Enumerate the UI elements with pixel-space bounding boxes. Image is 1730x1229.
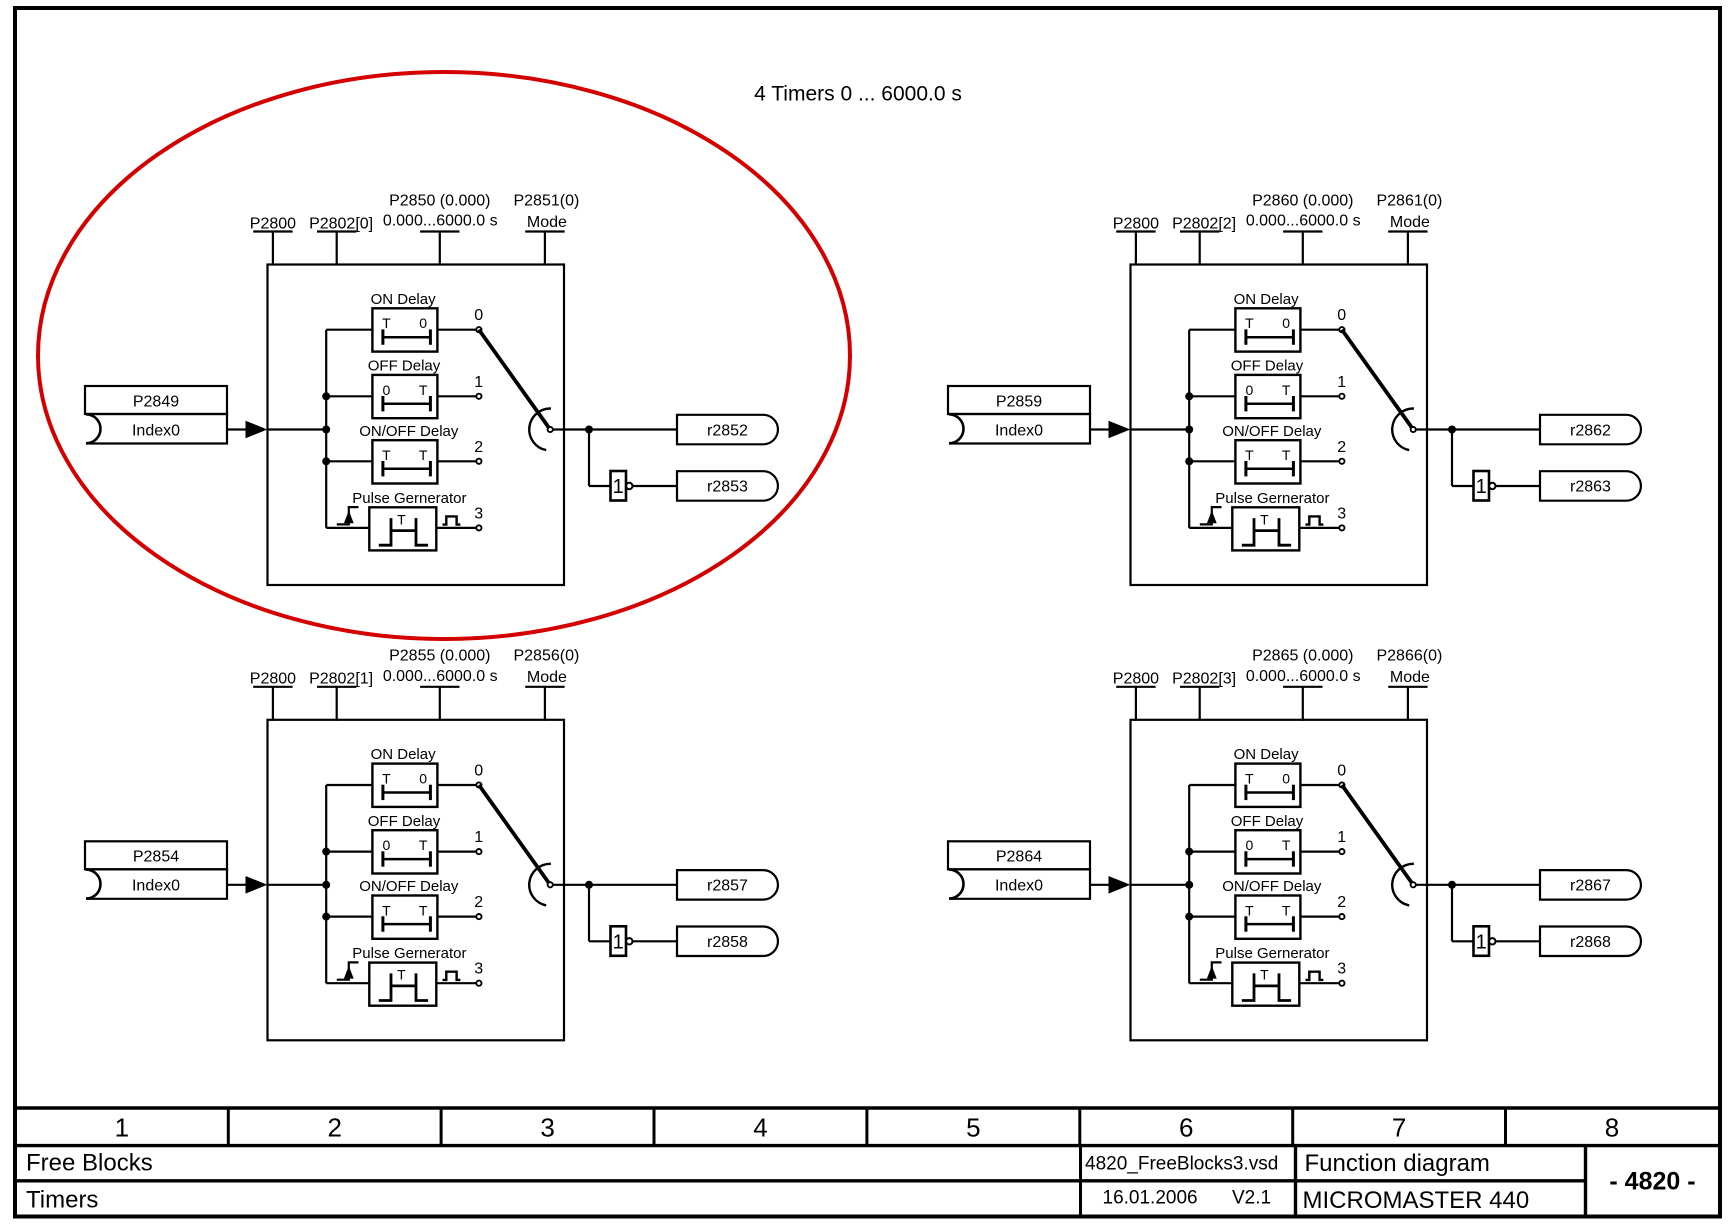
timer 3 Pulse Gernerator box <box>1232 507 1299 550</box>
timer 3 branch bus wire <box>1188 330 1190 528</box>
timer 2 output connector r2858 <box>677 927 778 957</box>
timer 4 pin P2800 <box>1116 687 1155 721</box>
svg-text:2: 2 <box>474 439 483 456</box>
svg-text:3: 3 <box>1337 505 1346 522</box>
svg-text:ON/OFF Delay: ON/OFF Delay <box>1222 878 1322 895</box>
svg-text:Mode: Mode <box>527 669 567 686</box>
timer 3 pin P2861(0) Mode <box>1388 232 1427 266</box>
timer 4 output connector r2867 <box>1540 870 1641 900</box>
timer 3 output wire <box>1416 428 1540 430</box>
timer 2 wire down to inverter <box>588 885 590 942</box>
timer 1 output junction dot <box>585 426 593 434</box>
svg-text:P2866(0): P2866(0) <box>1376 648 1442 665</box>
svg-text:ON/OFF Delay: ON/OFF Delay <box>359 423 459 440</box>
timer 3 switch contact 2 <box>1339 459 1344 464</box>
timer 1 wire into Pulse Gernerator <box>326 527 369 529</box>
svg-text:P2861(0): P2861(0) <box>1376 192 1442 209</box>
timer 3 pin P2860 (0.000) <box>1283 232 1322 266</box>
timer 1 switch contact 0 <box>476 327 481 332</box>
svg-text:ON/OFF Delay: ON/OFF Delay <box>1222 423 1322 440</box>
timer 3 block enclosure <box>1131 265 1428 586</box>
timer 4 pulse waveform <box>1242 973 1291 1000</box>
timer 3 wire into ON Delay <box>1189 329 1235 331</box>
svg-text:0.000...6000.0 s: 0.000...6000.0 s <box>1246 668 1361 685</box>
svg-text:Index0: Index0 <box>995 422 1043 439</box>
svg-text:T: T <box>419 447 428 463</box>
timer 2 wire inverter to r2858 <box>633 940 677 942</box>
timer 1 wire into ON Delay <box>326 329 372 331</box>
svg-text:MICROMASTER 440: MICROMASTER 440 <box>1303 1187 1530 1214</box>
timer 3 output connector r2863 <box>1540 471 1641 501</box>
timer 1 junction dot ON/OFF row <box>322 457 330 465</box>
timer 4 output junction dot <box>1448 881 1456 889</box>
timer 2 junction dot OFF row <box>322 848 330 856</box>
timer 2 block enclosure <box>268 720 565 1041</box>
timer 4 wire out of ON/OFF Delay <box>1300 915 1339 917</box>
timer 1 output connector r2852 <box>677 415 778 445</box>
timer 4 ON Delay timing bar <box>1246 785 1294 800</box>
svg-text:3: 3 <box>474 505 483 522</box>
svg-text:r2868: r2868 <box>1570 934 1611 951</box>
timer 3 switch contact 3 <box>1339 525 1344 530</box>
svg-text:T: T <box>1245 315 1254 331</box>
timer 4 OFF Delay symbol T labels <box>1246 837 1291 853</box>
timer 4 switch contact 1 <box>1339 849 1344 854</box>
timer 3 ON Delay box <box>1235 308 1300 351</box>
timer 3 switch contact 0 <box>1339 327 1344 332</box>
timer 1 ON Delay timing bar <box>383 329 431 344</box>
svg-text:P2865 (0.000): P2865 (0.000) <box>1252 648 1353 665</box>
timer 1 pin P2800 <box>253 232 292 266</box>
timer 4 wire out of OFF Delay <box>1300 850 1339 852</box>
svg-text:Index0: Index0 <box>132 422 180 439</box>
timer 1 selector arc <box>529 408 551 450</box>
timer 3 selector lever <box>1342 330 1413 430</box>
svg-text:V2.1: V2.1 <box>1232 1188 1271 1209</box>
timer 2 input wire <box>227 884 247 886</box>
timer 1 pin P2802[0] <box>317 232 356 266</box>
svg-text:P2802[2]: P2802[2] <box>1172 215 1236 232</box>
timer 2 output connector r2857 <box>677 870 778 900</box>
timer 2 ON/OFF Delay symbol T labels <box>382 902 428 918</box>
timer 4 junction dot main row <box>1185 881 1193 889</box>
svg-text:0: 0 <box>1246 837 1254 853</box>
column separator 5|6 <box>1078 1108 1081 1146</box>
svg-text:0: 0 <box>419 771 427 787</box>
timer 3 wire out of Pulse Gernerator <box>1299 527 1339 529</box>
timer 1 Pulse Gernerator box <box>369 507 436 550</box>
svg-text:T: T <box>1282 902 1291 918</box>
timer 4 output pulse symbol <box>1306 972 1324 980</box>
svg-text:P2802[0]: P2802[0] <box>309 215 373 232</box>
timer 2 pin P2856(0) Mode <box>525 687 564 721</box>
svg-text:P2860 (0.000): P2860 (0.000) <box>1252 192 1353 209</box>
timer 3 input arrowhead <box>1109 421 1131 439</box>
timer 3 common contact <box>1411 427 1416 432</box>
timer 1 OFF Delay timing bar <box>383 396 431 411</box>
timer 2 junction dot main row <box>322 881 330 889</box>
timer 4 OFF Delay box <box>1235 830 1300 873</box>
timer 2 ON Delay box <box>372 764 437 807</box>
svg-text:T: T <box>419 382 428 398</box>
separator left of page number cell <box>1584 1146 1587 1217</box>
svg-text:T: T <box>382 447 391 463</box>
svg-text:Pulse Gernerator: Pulse Gernerator <box>1215 945 1329 962</box>
timer 3 wire into Pulse Gernerator <box>1189 527 1232 529</box>
timer 3 selector arc <box>1392 408 1414 450</box>
column separator 2|3 <box>440 1108 443 1146</box>
timer 2 Pulse Gernerator box <box>369 963 436 1006</box>
svg-text:r2867: r2867 <box>1570 878 1611 895</box>
svg-text:r2853: r2853 <box>707 479 748 496</box>
svg-text:P2802[1]: P2802[1] <box>309 671 373 688</box>
timer 2 inverter negation circle <box>626 938 632 944</box>
column separator 3|4 <box>653 1108 656 1146</box>
separator left of Function diagram cell <box>1294 1146 1297 1217</box>
svg-text:0: 0 <box>1337 763 1346 780</box>
timer 2 switch contact 0 <box>476 782 481 787</box>
timer 2 common contact <box>548 882 553 887</box>
timer 4 ON/OFF Delay symbol T labels <box>1245 902 1291 918</box>
timer 1 output wire <box>553 428 677 430</box>
svg-text:8: 8 <box>1605 1113 1619 1143</box>
timer 4 wire out of Pulse Gernerator <box>1299 982 1339 984</box>
svg-text:T: T <box>397 967 406 983</box>
timer 4 output wire <box>1416 884 1540 886</box>
svg-text:3: 3 <box>1337 961 1346 978</box>
svg-text:T: T <box>382 771 391 787</box>
timer 3 wire into ON/OFF Delay <box>1189 460 1235 462</box>
timer 1 wire inverter to r2853 <box>633 485 677 487</box>
timer 3 pin P2800 <box>1116 232 1155 266</box>
svg-text:P2800: P2800 <box>250 671 296 688</box>
column separator 1|2 <box>227 1108 230 1146</box>
svg-text:OFF Delay: OFF Delay <box>1231 813 1304 830</box>
svg-text:P2802[3]: P2802[3] <box>1172 671 1236 688</box>
timer 1 input arrowhead <box>246 421 268 439</box>
timer 2 selector lever <box>479 785 550 885</box>
svg-text:0: 0 <box>419 315 427 331</box>
svg-text:P2800: P2800 <box>1113 215 1159 232</box>
svg-text:r2863: r2863 <box>1570 479 1611 496</box>
title block rule under column numbers <box>15 1144 1720 1147</box>
timer 1 inverter box <box>611 471 627 501</box>
timer 4 input wire <box>1090 884 1110 886</box>
title block rule between rows <box>15 1179 1586 1182</box>
separator left of file name cell <box>1079 1146 1082 1217</box>
timer 1 OFF Delay box <box>372 375 437 418</box>
timer 2 switch contact 3 <box>476 981 481 986</box>
timer 1 output pulse symbol <box>443 516 461 524</box>
timer 1 wire out of OFF Delay <box>437 395 476 397</box>
svg-text:1: 1 <box>474 374 483 391</box>
timer 1 input wire <box>227 428 247 430</box>
timer 3 wire inverter to r2863 <box>1496 485 1540 487</box>
timer 2 switch contact 2 <box>476 914 481 919</box>
timer 1 wire into inverter <box>589 485 611 487</box>
timer 2 ON/OFF Delay box <box>372 896 437 939</box>
timer 2 ON/OFF Delay timing bar <box>383 916 431 931</box>
timer 1 switch contact 3 <box>476 525 481 530</box>
svg-text:16.01.2006: 16.01.2006 <box>1103 1188 1198 1209</box>
svg-text:Mode: Mode <box>1390 669 1430 686</box>
timer 2 output pulse symbol <box>443 972 461 980</box>
svg-text:0.000...6000.0 s: 0.000...6000.0 s <box>383 213 498 230</box>
timer 2 wire out of ON/OFF Delay <box>437 915 476 917</box>
timer 1 branch bus wire <box>325 330 327 528</box>
timer 2 junction dot ON/OFF row <box>322 913 330 921</box>
timer 2 wire into ON/OFF Delay <box>326 915 372 917</box>
timer 4 wire into ON/OFF Delay <box>1189 915 1235 917</box>
svg-text:2: 2 <box>1337 439 1346 456</box>
timer 1 common contact <box>548 427 553 432</box>
svg-text:2: 2 <box>1337 894 1346 911</box>
svg-text:2: 2 <box>327 1113 341 1143</box>
svg-text:1: 1 <box>1337 374 1346 391</box>
svg-text:T: T <box>1245 447 1254 463</box>
svg-text:OFF Delay: OFF Delay <box>368 813 441 830</box>
svg-text:T: T <box>1245 771 1254 787</box>
timer 3 OFF Delay symbol T labels <box>1246 382 1291 398</box>
svg-text:ON/OFF Delay: ON/OFF Delay <box>359 878 459 895</box>
svg-text:ON Delay: ON Delay <box>371 746 437 763</box>
svg-text:r2862: r2862 <box>1570 422 1611 439</box>
svg-text:P2850 (0.000): P2850 (0.000) <box>389 192 490 209</box>
svg-text:1: 1 <box>1476 932 1487 954</box>
timer 3 junction dot OFF row <box>1185 392 1193 400</box>
timer 1 junction dot main row <box>322 426 330 434</box>
timer 4 Pulse Gernerator box <box>1232 963 1299 1006</box>
timer 2 wire into ON Delay <box>326 784 372 786</box>
svg-text:P2851(0): P2851(0) <box>513 192 579 209</box>
timer 3 OFF Delay box <box>1235 375 1300 418</box>
timer 1 wire out of ON Delay <box>437 329 476 331</box>
timer 2 pin P2802[1] <box>317 687 356 721</box>
timer 2 ON Delay symbol T labels <box>382 771 427 787</box>
svg-text:P2800: P2800 <box>1113 671 1159 688</box>
timer 3 wire into inverter <box>1452 485 1474 487</box>
timer 3 input wire <box>1090 428 1110 430</box>
svg-text:T: T <box>1245 902 1254 918</box>
svg-text:4: 4 <box>753 1113 767 1143</box>
timer 3 wire into OFF Delay <box>1189 395 1235 397</box>
timer 4 switch contact 3 <box>1339 981 1344 986</box>
timer 1 wire down to inverter <box>588 430 590 487</box>
timer 1 wire into ON/OFF Delay <box>326 460 372 462</box>
svg-text:T: T <box>382 315 391 331</box>
timer 2 switch contact 1 <box>476 849 481 854</box>
timer 3 OFF Delay timing bar <box>1246 396 1294 411</box>
timer 3 ON/OFF Delay symbol T labels <box>1245 447 1291 463</box>
timer 4 pin P2865 (0.000) <box>1283 687 1322 721</box>
timer 3 ON Delay symbol T labels <box>1245 315 1290 331</box>
timer 4 common contact <box>1411 882 1416 887</box>
svg-text:4 Timers 0 ... 6000.0 s: 4 Timers 0 ... 6000.0 s <box>754 83 962 106</box>
svg-text:T: T <box>1282 837 1291 853</box>
timer 3 ON/OFF Delay timing bar <box>1246 461 1294 476</box>
timer 3 wire out of OFF Delay <box>1300 395 1339 397</box>
timer 4 ON/OFF Delay timing bar <box>1246 916 1294 931</box>
timer 1 input connector P2849 Index0 <box>85 386 227 444</box>
timer 3 wire out of ON Delay <box>1300 329 1339 331</box>
svg-text:0: 0 <box>383 382 391 398</box>
svg-text:0: 0 <box>383 837 391 853</box>
timer 4 wire into inverter <box>1452 940 1474 942</box>
svg-text:P2864: P2864 <box>996 849 1042 866</box>
timer 2 ON Delay timing bar <box>383 785 431 800</box>
timer 2 output junction dot <box>585 881 593 889</box>
timer 1 rising edge symbol <box>337 507 359 524</box>
timer 1 switch contact 2 <box>476 459 481 464</box>
timer 4 wire down to inverter <box>1451 885 1453 942</box>
svg-text:P2855 (0.000): P2855 (0.000) <box>389 648 490 665</box>
svg-text:ON Delay: ON Delay <box>1234 746 1300 763</box>
svg-text:1: 1 <box>1337 829 1346 846</box>
timer 3 junction dot ON/OFF row <box>1185 457 1193 465</box>
timer 4 inverter negation circle <box>1489 938 1495 944</box>
timer 3 output pulse symbol <box>1306 516 1324 524</box>
timer 3 wire to branch <box>1131 428 1190 430</box>
timer 3 input connector P2859 Index0 <box>948 386 1090 444</box>
svg-text:OFF Delay: OFF Delay <box>1231 358 1304 375</box>
timer 4 wire out of ON Delay <box>1300 784 1339 786</box>
svg-text:T: T <box>419 902 428 918</box>
timer 3 rising edge symbol <box>1200 507 1222 524</box>
svg-text:r2858: r2858 <box>707 934 748 951</box>
timer 2 wire into Pulse Gernerator <box>326 982 369 984</box>
timer 4 switch contact 2 <box>1339 914 1344 919</box>
svg-text:6: 6 <box>1179 1113 1193 1143</box>
svg-text:Pulse Gernerator: Pulse Gernerator <box>352 490 466 507</box>
timer 2 wire out of ON Delay <box>437 784 476 786</box>
timer 4 junction dot ON/OFF row <box>1185 913 1193 921</box>
svg-text:P2854: P2854 <box>133 849 179 866</box>
svg-text:Index0: Index0 <box>995 878 1043 895</box>
timer 4 wire into Pulse Gernerator <box>1189 982 1232 984</box>
svg-text:Pulse Gernerator: Pulse Gernerator <box>1215 490 1329 507</box>
timer 3 inverter box <box>1474 471 1490 501</box>
timer 1 wire out of ON/OFF Delay <box>437 460 476 462</box>
timer 2 OFF Delay timing bar <box>383 851 431 866</box>
svg-text:r2857: r2857 <box>707 878 748 895</box>
title block top rule <box>15 1106 1720 1109</box>
timer 1 ON/OFF Delay timing bar <box>383 461 431 476</box>
svg-text:5: 5 <box>966 1113 980 1143</box>
svg-text:- 4820 -: - 4820 - <box>1609 1168 1695 1196</box>
svg-text:3: 3 <box>540 1113 554 1143</box>
svg-text:4820_FreeBlocks3.vsd: 4820_FreeBlocks3.vsd <box>1085 1154 1278 1175</box>
timer 2 pin P2800 <box>253 687 292 721</box>
timer 4 inverter box <box>1474 926 1490 956</box>
svg-text:T: T <box>382 902 391 918</box>
timer 4 wire into OFF Delay <box>1189 850 1235 852</box>
timer 4 input connector P2864 Index0 <box>948 841 1090 899</box>
column separator 6|7 <box>1291 1108 1294 1146</box>
svg-text:Timers: Timers <box>26 1186 98 1213</box>
timer 1 output connector r2853 <box>677 471 778 501</box>
svg-text:OFF Delay: OFF Delay <box>368 358 441 375</box>
timer 1 ON Delay box <box>372 308 437 351</box>
timer 3 wire down to inverter <box>1451 430 1453 487</box>
timer 4 block enclosure <box>1131 720 1428 1041</box>
svg-text:0: 0 <box>474 307 483 324</box>
svg-text:1: 1 <box>1476 476 1487 498</box>
svg-text:Pulse Gernerator: Pulse Gernerator <box>352 945 466 962</box>
timer 3 pin P2802[2] <box>1180 232 1219 266</box>
timer 1 block enclosure <box>268 265 565 586</box>
svg-text:2: 2 <box>474 894 483 911</box>
timer 1 selector lever <box>479 330 550 430</box>
timer 4 rising edge symbol <box>1200 962 1222 979</box>
timer 4 pin P2866(0) Mode <box>1388 687 1427 721</box>
timer 4 OFF Delay timing bar <box>1246 851 1294 866</box>
svg-text:P2859: P2859 <box>996 393 1042 410</box>
timer 2 branch bus wire <box>325 785 327 983</box>
svg-text:3: 3 <box>474 961 483 978</box>
svg-text:Free Blocks: Free Blocks <box>26 1150 153 1177</box>
timer 1 junction dot OFF row <box>322 392 330 400</box>
timer 1 pin P2851(0) Mode <box>525 232 564 266</box>
svg-text:1: 1 <box>613 476 624 498</box>
timer 2 OFF Delay box <box>372 830 437 873</box>
svg-text:0: 0 <box>1282 771 1290 787</box>
timer 2 pulse waveform <box>379 973 428 1000</box>
svg-text:1: 1 <box>613 932 624 954</box>
timer 2 OFF Delay symbol T labels <box>383 837 428 853</box>
svg-text:1: 1 <box>115 1113 129 1143</box>
timer 1 OFF Delay symbol T labels <box>383 382 428 398</box>
timer 4 branch bus wire <box>1188 785 1190 983</box>
timer 3 output junction dot <box>1448 426 1456 434</box>
svg-text:Mode: Mode <box>527 214 567 231</box>
timer 2 wire into inverter <box>589 940 611 942</box>
timer 3 output connector r2862 <box>1540 415 1641 445</box>
svg-text:T: T <box>1260 967 1269 983</box>
timer 1 switch contact 1 <box>476 394 481 399</box>
timer 3 junction dot main row <box>1185 426 1193 434</box>
svg-text:Mode: Mode <box>1390 214 1430 231</box>
svg-text:7: 7 <box>1392 1113 1406 1143</box>
timer 4 selector arc <box>1392 864 1414 906</box>
timer 1 ON/OFF Delay symbol T labels <box>382 447 428 463</box>
timer 2 inverter box <box>611 926 627 956</box>
timer 4 switch contact 0 <box>1339 782 1344 787</box>
svg-text:Index0: Index0 <box>132 878 180 895</box>
svg-text:0: 0 <box>1282 315 1290 331</box>
timer 4 ON Delay symbol T labels <box>1245 771 1290 787</box>
timer 4 junction dot OFF row <box>1185 848 1193 856</box>
timer 2 input connector P2854 Index0 <box>85 841 227 899</box>
timer 1 pulse waveform <box>379 518 428 545</box>
svg-text:0.000...6000.0 s: 0.000...6000.0 s <box>1246 213 1361 230</box>
timer 4 pin P2802[3] <box>1180 687 1219 721</box>
timer 4 ON Delay box <box>1235 764 1300 807</box>
timer 3 inverter negation circle <box>1489 483 1495 489</box>
timer 4 selector lever <box>1342 785 1413 885</box>
svg-text:1: 1 <box>474 829 483 846</box>
timer 2 wire into OFF Delay <box>326 850 372 852</box>
timer 2 selector arc <box>529 864 551 906</box>
timer 2 wire out of Pulse Gernerator <box>436 982 476 984</box>
svg-text:ON Delay: ON Delay <box>371 291 437 308</box>
timer 4 output connector r2868 <box>1540 927 1641 957</box>
column separator 7|8 <box>1504 1108 1507 1146</box>
svg-text:ON Delay: ON Delay <box>1234 291 1300 308</box>
timer 3 ON Delay timing bar <box>1246 329 1294 344</box>
svg-text:r2852: r2852 <box>707 422 748 439</box>
svg-text:T: T <box>1282 447 1291 463</box>
svg-text:P2849: P2849 <box>133 393 179 410</box>
